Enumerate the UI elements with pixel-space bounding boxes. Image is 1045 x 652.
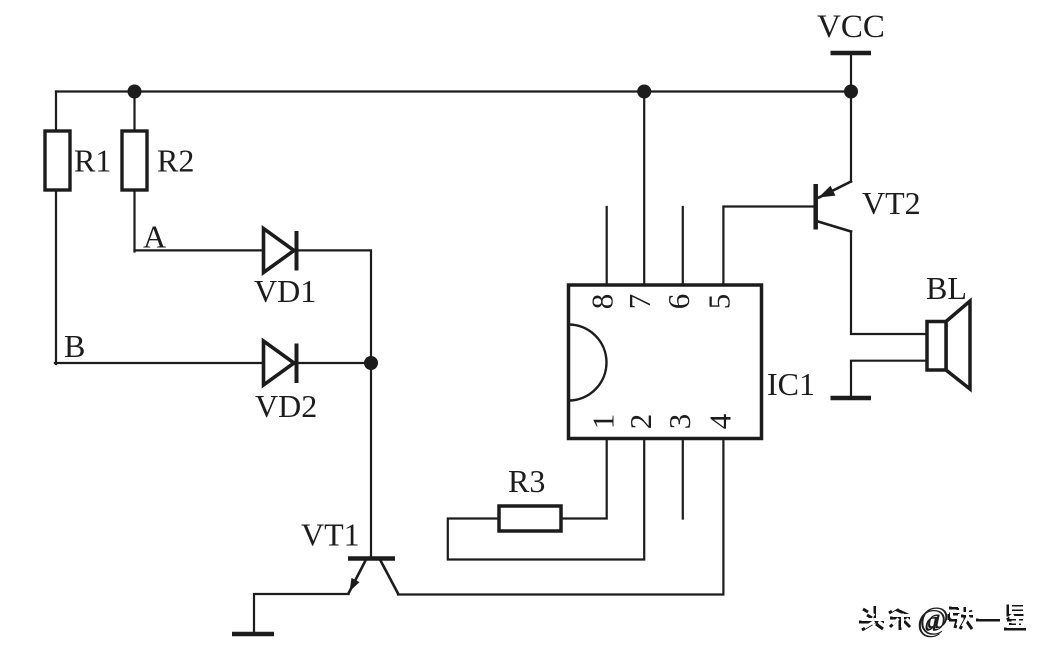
- svg-text:R3: R3: [508, 463, 545, 499]
- pin 7 wire to top rail: [643, 92, 645, 286]
- ground VT1 emitter: [232, 632, 274, 637]
- wire VT1 collector to IC pin 4: [398, 439, 723, 595]
- pin 5 wire to VT2 base: [723, 207, 813, 286]
- junction dot VCC / top rail: [844, 85, 858, 99]
- IC1 notch: [569, 325, 607, 401]
- wire VT1 emitter to ground: [254, 594, 349, 633]
- resistor R1: [45, 131, 70, 190]
- svg-text:B: B: [64, 328, 85, 364]
- IC IC1 box: [569, 285, 762, 439]
- VCC bar: [831, 51, 872, 56]
- wire top rail to R2: [133, 92, 135, 133]
- junction dot VD2 / VT1: [364, 356, 378, 370]
- speaker BL: [927, 301, 970, 389]
- junction dot R2 / top rail: [128, 85, 142, 99]
- svg-text:VD2: VD2: [255, 388, 317, 424]
- wire R2 to node A: [133, 190, 135, 252]
- svg-text:5: 5: [701, 294, 736, 310]
- ground speaker return: [831, 396, 872, 401]
- svg-text:3: 3: [662, 414, 697, 430]
- svg-text:R1: R1: [74, 143, 111, 179]
- svg-text:A: A: [143, 219, 166, 255]
- svg-text:R2: R2: [157, 143, 194, 179]
- svg-text:IC1: IC1: [767, 366, 815, 402]
- pin 1 wire to R3: [561, 439, 607, 519]
- svg-text:1: 1: [586, 414, 621, 430]
- wire top rail to VT2 emitter: [850, 92, 852, 182]
- pin 3 stub: [682, 439, 684, 519]
- diode VD1: [264, 229, 297, 273]
- svg-text:2: 2: [623, 414, 658, 430]
- wire top rail: [56, 90, 851, 92]
- svg-text:BL: BL: [926, 270, 967, 306]
- resistor R2: [122, 131, 147, 190]
- svg-text:VT2: VT2: [862, 185, 921, 221]
- svg-text:7: 7: [622, 294, 657, 310]
- wire R3 to IC pin 2: [448, 439, 644, 560]
- transistor VT1: [348, 559, 398, 594]
- wire junction to VT1 base: [370, 363, 372, 557]
- diode VD2: [264, 341, 297, 385]
- pin 6 stub: [682, 207, 684, 285]
- pin 8 stub: [606, 207, 608, 285]
- svg-text:8: 8: [585, 294, 620, 310]
- junction dot pin 7 / top rail: [637, 85, 651, 99]
- wire VT2 collector to speaker: [851, 232, 927, 335]
- wire node A horizontal: [135, 250, 372, 363]
- wire speaker to ground: [851, 361, 927, 396]
- svg-text:VT1: VT1: [301, 517, 360, 553]
- wire top rail to R1: [55, 92, 57, 133]
- svg-text:6: 6: [661, 294, 696, 310]
- transistor VT2: [816, 182, 851, 232]
- resistor R3: [499, 506, 561, 531]
- svg-text:VD1: VD1: [254, 273, 316, 309]
- svg-text:4: 4: [702, 413, 737, 429]
- wire node B horizontal: [55, 362, 371, 364]
- wire R1 to node B: [55, 190, 57, 364]
- wire VCC to top rail: [850, 53, 852, 92]
- svg-text:VCC: VCC: [817, 9, 885, 45]
